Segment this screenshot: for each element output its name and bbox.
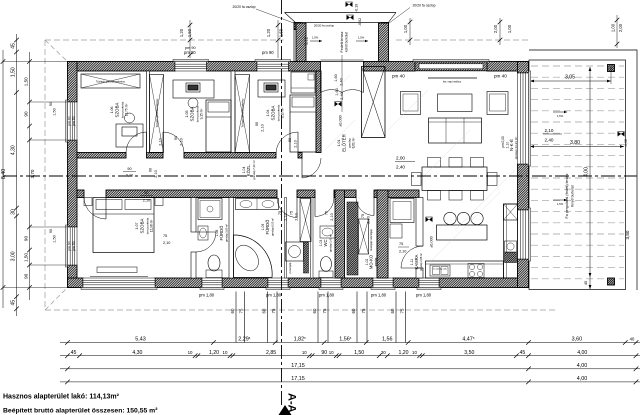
entry wardrobe closet with X [362, 67, 386, 138]
svg-text:45: 45 [71, 350, 77, 356]
svg-text:75: 75 [163, 234, 167, 238]
svg-text:75: 75 [400, 308, 405, 313]
svg-text:2,10: 2,10 [159, 138, 163, 145]
entry threshold [321, 59, 364, 61]
svg-text:10: 10 [329, 350, 334, 355]
svg-text:2,40: 2,40 [545, 138, 554, 143]
porch deck [294, 23, 389, 62]
svg-text:13,75 m²: 13,75 m² [125, 104, 129, 117]
svg-text:3,70: 3,70 [30, 169, 35, 178]
svg-text:2,10: 2,10 [126, 174, 133, 178]
svg-text:greslap: greslap [374, 257, 378, 266]
window sills top wall [173, 59, 209, 61]
svg-text:90: 90 [144, 191, 148, 195]
wc toilet [319, 271, 333, 278]
svg-text:8,40: 8,40 [1, 169, 7, 180]
svg-text:90: 90 [174, 136, 178, 140]
svg-text:-0,19: -0,19 [355, 4, 359, 12]
svg-text:2,40: 2,40 [396, 165, 405, 170]
cooktop [468, 264, 484, 278]
bath 1.08 toilet [206, 270, 222, 278]
window room 1.07 bottom [83, 278, 155, 288]
svg-text:1,20: 1,20 [179, 28, 184, 37]
left dim col C [29, 52, 31, 300]
svg-text:pm 90: pm 90 [72, 241, 76, 251]
kitchen east counter [504, 204, 518, 278]
sofa [429, 118, 482, 143]
svg-text:A-A: A-A [286, 393, 298, 413]
svg-text:Fa pergolával (fedett) terasz: Fa pergolával (fedett) terasz [565, 173, 569, 218]
wall 1.04|eloter [316, 71, 321, 153]
door bath 1.09 [296, 198, 298, 218]
svg-text:pm 90: pm 90 [185, 46, 196, 50]
pergola post top [608, 65, 615, 72]
left dim col B [16, 34, 18, 316]
sink [430, 265, 450, 276]
svg-text:75: 75 [361, 308, 366, 313]
svg-text:90: 90 [149, 168, 153, 172]
svg-text:75: 75 [290, 211, 294, 215]
nightstand left [84, 198, 92, 206]
dining chairs bottom [428, 191, 441, 201]
svg-text:FÜRDŐ: FÜRDŐ [265, 219, 270, 235]
window sills bottom wall [81, 288, 157, 290]
coffee table [438, 94, 473, 112]
svg-text:90: 90 [321, 350, 327, 356]
svg-text:greslap 3,80 m²: greslap 3,80 m² [225, 224, 229, 242]
window MO-KO [373, 278, 393, 288]
door bath 1.08 [196, 231, 216, 233]
svg-text:10: 10 [223, 350, 228, 355]
bath 1.08 shower [198, 199, 222, 220]
svg-text:pm 90: pm 90 [68, 241, 72, 251]
svg-text:pm 1,80: pm 1,80 [199, 293, 215, 298]
wardrobe room 1.04 [235, 75, 250, 153]
partition 1.05|1.04 [231, 71, 235, 153]
svg-text:2,85: 2,85 [266, 350, 276, 356]
section arrow bottom [279, 405, 292, 415]
svg-text:1,5%: 1,5% [312, 36, 319, 40]
svg-text:±0,000: ±0,000 [339, 115, 343, 127]
svg-text:1,50: 1,50 [354, 350, 364, 356]
svg-text:greslap 6,53 m²: greslap 6,53 m² [271, 218, 275, 236]
door room 1.06 [146, 132, 148, 153]
interior wall: corridor south y190 [77, 190, 84, 198]
svg-text:pm 0,00: pm 0,00 [501, 136, 505, 148]
svg-text:SZOBA: SZOBA [115, 102, 120, 117]
svg-text:75: 75 [239, 308, 244, 313]
svg-text:90: 90 [49, 229, 53, 233]
interior wall: bedrooms south (corridor north) y152.5 [77, 153, 126, 159]
svg-text:greslap 1,41 m²: greslap 1,41 m² [329, 234, 333, 252]
window sills right wall [529, 71, 531, 166]
svg-text:60: 60 [351, 308, 356, 313]
svg-text:45: 45 [11, 43, 17, 49]
svg-text:75: 75 [271, 308, 276, 313]
svg-text:60: 60 [312, 308, 317, 313]
svg-text:-0,02: -0,02 [358, 18, 362, 26]
window bath 1.09 [268, 278, 288, 288]
svg-text:90: 90 [24, 273, 29, 279]
double bed room 1.07 [93, 198, 154, 253]
svg-text:75: 75 [399, 242, 403, 246]
window room 1.06 left wall [68, 102, 78, 140]
bottom window dim stubs 60/75 [235, 292, 237, 343]
entrance french door [320, 71, 322, 93]
svg-text:20/20 fa oszlop: 20/20 fa oszlop [314, 23, 335, 27]
svg-text:4,30: 4,30 [132, 350, 142, 356]
section line A-A horizontal [3, 175, 637, 177]
roof corner miters [45, 40, 68, 62]
window living east 2 [518, 210, 529, 259]
porch side pier right [379, 23, 389, 62]
svg-text:90: 90 [288, 138, 292, 142]
svg-text:1,5%: 1,5% [358, 36, 365, 40]
svg-text:KAMRA: KAMRA [414, 254, 419, 269]
svg-text:12,98 m²: 12,98 m² [150, 220, 154, 233]
door wc [314, 198, 316, 217]
svg-text:Beépített bruttó alapterület ö: Beépített bruttó alapterület összesen: 1… [3, 407, 158, 414]
porch side pier left [296, 23, 306, 62]
dining chair left [412, 173, 422, 186]
bar stools [444, 212, 456, 224]
level mark kitchen ±0,000 [426, 217, 433, 222]
window bath 1.08 [202, 278, 222, 288]
terrace vertical dim 4,00 / 45 [589, 67, 591, 289]
window room 1.05 (pm 90) [175, 62, 207, 72]
level mark -0,02 [347, 15, 354, 20]
porch roof outline [285, 12, 397, 14]
exterior wall: bottom, segments [68, 278, 84, 288]
dining chair right [488, 173, 498, 186]
bath 1.09 vanity [236, 199, 279, 210]
wall nook|wc [311, 198, 314, 279]
svg-text:90: 90 [255, 122, 259, 126]
bottom dim row 2 [60, 355, 640, 357]
svg-text:1,5%: 1,5% [557, 114, 564, 118]
svg-text:4,00: 4,00 [577, 350, 587, 356]
svg-text:pm 90: pm 90 [72, 116, 76, 126]
svg-text:2,10: 2,10 [163, 241, 170, 245]
desk room 1.05 [173, 80, 214, 98]
svg-text:4,00: 4,00 [584, 167, 590, 177]
svg-text:4,00: 4,00 [577, 363, 588, 369]
mo-ko stacked washer/dryer [359, 219, 369, 254]
svg-text:90: 90 [49, 102, 53, 106]
svg-text:1.05: 1.05 [185, 111, 189, 118]
porch slope arrows 1,5% [310, 40, 322, 42]
svg-text:pm 1,80: pm 1,80 [319, 293, 335, 298]
svg-text:FÜRDŐ: FÜRDŐ [219, 225, 224, 241]
left dim extension lines [3, 61, 67, 63]
svg-text:1,00: 1,00 [507, 24, 512, 33]
terrace outer roof line [529, 50, 637, 290]
svg-text:SZOBA: SZOBA [190, 106, 195, 121]
svg-text:fsz: napi redőny: fsz: napi redőny [443, 80, 462, 84]
window WC [321, 278, 341, 288]
terrace level mark [618, 132, 625, 137]
terrace dim 3,05 [530, 80, 611, 82]
svg-text:45: 45 [11, 300, 17, 306]
svg-text:1,22: 1,22 [304, 36, 309, 45]
svg-text:2,00: 2,00 [618, 23, 623, 32]
svg-text:20/20 fa oszlop: 20/20 fa oszlop [233, 5, 256, 9]
svg-text:30: 30 [381, 350, 386, 355]
wall mo-ko|kamra (thick) [377, 190, 388, 278]
svg-text:Tolóajtó gardrobszekrény: Tolóajtó gardrobszekrény [96, 80, 126, 84]
nightstand right [155, 198, 163, 206]
svg-text:45: 45 [520, 350, 526, 356]
svg-text:2,10: 2,10 [154, 170, 158, 177]
window living east 1 [518, 73, 529, 164]
svg-text:45: 45 [583, 280, 588, 285]
svg-text:2,10: 2,10 [399, 250, 406, 254]
svg-text:1,20: 1,20 [266, 28, 271, 37]
svg-text:75: 75 [322, 308, 327, 313]
svg-text:1,50: 1,50 [11, 67, 17, 77]
desk room 1.06 [116, 124, 143, 147]
top vertical dims right of porch [409, 18, 411, 45]
door room 1.07 [105, 198, 107, 220]
armchair left [401, 92, 421, 115]
svg-text:2,10: 2,10 [261, 124, 265, 131]
svg-text:kefelt burkolat: kefelt burkolat [345, 32, 349, 52]
svg-text:2,10: 2,10 [284, 213, 288, 220]
svg-text:1,50: 1,50 [279, 28, 284, 37]
svg-text:2,10: 2,10 [367, 216, 371, 223]
svg-text:SZOBA: SZOBA [140, 218, 145, 233]
svg-text:pm 40: pm 40 [494, 74, 507, 79]
kitchen south counter [426, 261, 504, 278]
svg-text:4,30: 4,30 [11, 145, 17, 155]
kamra shelf [390, 199, 414, 223]
bed room 1.04 [290, 95, 316, 152]
svg-text:75: 75 [325, 211, 329, 215]
dining table [422, 167, 487, 191]
svg-text:1,60: 1,60 [334, 74, 338, 81]
svg-text:1,56: 1,56 [382, 337, 393, 343]
top small vertical dims left of porch [189, 20, 191, 58]
svg-text:3,05: 3,05 [565, 75, 575, 81]
svg-text:5,43: 5,43 [135, 337, 146, 343]
bottom dim row 3 [60, 368, 640, 370]
roof overhang dashed outline [45, 39, 284, 41]
exterior wall: top, segments [68, 62, 176, 72]
kamra shelf small [390, 224, 402, 238]
svg-text:-0,02: -0,02 [624, 139, 628, 147]
svg-text:2,40: 2,40 [340, 78, 344, 85]
svg-text:60: 60 [230, 308, 235, 313]
wardrobe room 1.06 [81, 74, 140, 88]
svg-text:pm 90: pm 90 [262, 50, 274, 55]
pergola post bottom [608, 278, 615, 285]
wall bath1.09|nook [285, 198, 287, 279]
wardrobe room 1.05 [150, 75, 164, 153]
svg-text:4,00: 4,00 [577, 376, 588, 382]
pergola decking dashed lines [531, 65, 624, 67]
hatched block counter [505, 253, 517, 263]
oven [505, 241, 517, 252]
door room 1.04 [297, 132, 299, 153]
svg-text:greslap 7,36 m²: greslap 7,36 m² [252, 160, 256, 180]
section line A-A vertical [281, 0, 283, 407]
svg-text:pm 1,80: pm 1,80 [266, 293, 282, 298]
svg-text:KÖZL.: KÖZL. [246, 164, 251, 176]
svg-text:1.04: 1.04 [266, 110, 270, 117]
svg-text:3,00: 3,00 [11, 251, 17, 261]
wall kamra|kitchen with door gap [416, 198, 423, 247]
porch post left 20/20 [294, 23, 301, 30]
svg-text:1.06: 1.06 [110, 107, 114, 114]
window room 1.07 left wall [68, 227, 78, 265]
left dim col A total 8,40 [2, 50, 4, 308]
kitchen island [437, 225, 488, 240]
wall bath1.08|bath1.09 [229, 198, 234, 279]
window room 1.04 (pm 90) [257, 62, 289, 72]
svg-text:10: 10 [412, 350, 417, 355]
desk room 1.04 [258, 80, 285, 97]
svg-text:pm 40: pm 40 [392, 74, 405, 79]
svg-text:2,10: 2,10 [180, 138, 184, 145]
svg-text:pm 1,80: pm 1,80 [371, 293, 387, 298]
wall 1.07|bath1.08 with door gap [191, 198, 196, 233]
svg-text:greslap 33,23 m²: greslap 33,23 m² [514, 137, 518, 160]
wall wc|mo-ko (thick) [335, 190, 345, 278]
svg-text:1.07: 1.07 [135, 223, 139, 230]
svg-text:3,60: 3,60 [572, 337, 583, 343]
low cabinet room 1.07 [97, 267, 137, 273]
svg-text:2,10: 2,10 [143, 199, 150, 203]
svg-text:mosógép szárítógép: mosógép szárítógép [370, 229, 373, 251]
dresser room 1.04 [291, 72, 315, 93]
svg-text:60: 60 [390, 308, 395, 313]
svg-text:1,5%: 1,5% [557, 202, 564, 206]
big sliding glass door living room [415, 62, 487, 71]
svg-text:2,10: 2,10 [294, 140, 298, 147]
svg-text:2,10: 2,10 [545, 128, 554, 133]
svg-text:fenyő burkolat: fenyő burkolat [571, 185, 575, 206]
bed room 1.05 [206, 100, 231, 152]
svg-text:Fedett terasz: Fedett terasz [340, 31, 344, 52]
svg-text:1,50: 1,50 [187, 28, 192, 37]
svg-text:2,00: 2,00 [493, 24, 498, 33]
svg-text:mosógép: mosógép [288, 262, 292, 273]
svg-text:2,10: 2,10 [330, 213, 334, 220]
window kitchen [419, 278, 439, 288]
svg-text:60: 60 [262, 308, 267, 313]
svg-text:75: 75 [361, 214, 365, 218]
nook tall cabinet X [300, 199, 311, 242]
svg-text:1,50: 1,50 [24, 253, 29, 262]
svg-text:pm 1,80: pm 1,80 [416, 293, 432, 298]
svg-text:20/20 fa oszlop: 20/20 fa oszlop [413, 4, 436, 8]
dining chairs top [428, 158, 441, 168]
svg-text:90: 90 [24, 236, 29, 242]
svg-text:1,00: 1,00 [611, 23, 616, 32]
svg-text:9,15 m²: 9,15 m² [200, 109, 204, 120]
bottom dim row 4 [60, 381, 640, 383]
door corridor-entry [301, 158, 303, 178]
wc basin [320, 226, 335, 238]
svg-text:3,80: 3,80 [570, 140, 580, 146]
door kamra [401, 267, 423, 269]
svg-text:2,00: 2,00 [396, 156, 405, 161]
bath 1.08 basin [198, 226, 208, 240]
terrace dim 3,80 [530, 146, 624, 148]
svg-text:1.01: 1.01 [337, 140, 341, 147]
svg-text:3,80: 3,80 [625, 230, 630, 239]
svg-text:Hasznos alapterület lakó: 114,: Hasznos alapterület lakó: 114,13m² [3, 394, 120, 401]
tile direction marks living/entry [388, 90, 428, 130]
door room 1.05 [162, 132, 164, 153]
svg-text:SZOBA: SZOBA [271, 105, 276, 120]
level mark entry ±0,000 [335, 102, 342, 107]
svg-text:WC: WC [323, 240, 328, 247]
svg-text:m side by side: m side by side [433, 269, 448, 271]
svg-text:Tolóajtó gardrobszekrény: Tolóajtó gardrobszekrény [155, 98, 159, 128]
porch post right 20/20 [382, 23, 389, 30]
door mo-ko [373, 198, 375, 216]
nook washing machine [286, 242, 304, 261]
level mark -0,19 [346, 2, 353, 7]
svg-text:pm 90: pm 90 [68, 116, 72, 126]
svg-text:3,50: 3,50 [464, 350, 474, 356]
fridge [504, 204, 518, 220]
svg-text:90: 90 [127, 167, 131, 171]
svg-text:ELŐTÉR: ELŐTÉR [342, 134, 347, 152]
bottom dim row 1 [60, 342, 640, 344]
svg-text:40: 40 [630, 337, 635, 342]
svg-text:8,61 m²: 8,61 m² [352, 138, 356, 149]
svg-text:1,50: 1,50 [53, 108, 57, 115]
exterior wall: left, segments [68, 62, 78, 103]
svg-text:1,20: 1,20 [209, 350, 219, 356]
svg-text:10: 10 [302, 350, 307, 355]
window sills left wall [65, 100, 67, 142]
mo-ko tall cabinet [347, 202, 358, 275]
terrace slope arrows [553, 111, 567, 113]
exterior wall: right, segments [518, 62, 529, 74]
svg-text:10: 10 [188, 350, 193, 355]
pergola outline [529, 60, 626, 290]
svg-text:1,20: 1,20 [398, 350, 408, 356]
svg-text:Tolóajtó gardrobszekrény: Tolóajtó gardrobszekrény [241, 98, 245, 128]
svg-text:30: 30 [11, 209, 17, 215]
svg-text:1,50: 1,50 [53, 235, 57, 242]
svg-text:2,10: 2,10 [295, 213, 299, 220]
svg-text:1,00: 1,00 [403, 24, 408, 33]
svg-text:90: 90 [24, 111, 29, 117]
bath 1.09 corner tub [234, 235, 273, 278]
svg-text:17,15: 17,15 [291, 376, 305, 382]
svg-text:±0,000: ±0,000 [430, 236, 434, 248]
svg-text:17,15: 17,15 [291, 363, 305, 369]
svg-text:1,50: 1,50 [24, 77, 29, 86]
svg-text:MO-KO: MO-KO [369, 254, 374, 269]
nook radiator hatched [304, 242, 309, 273]
armchair right [487, 92, 508, 115]
partition 1.06|1.05 [147, 71, 150, 153]
